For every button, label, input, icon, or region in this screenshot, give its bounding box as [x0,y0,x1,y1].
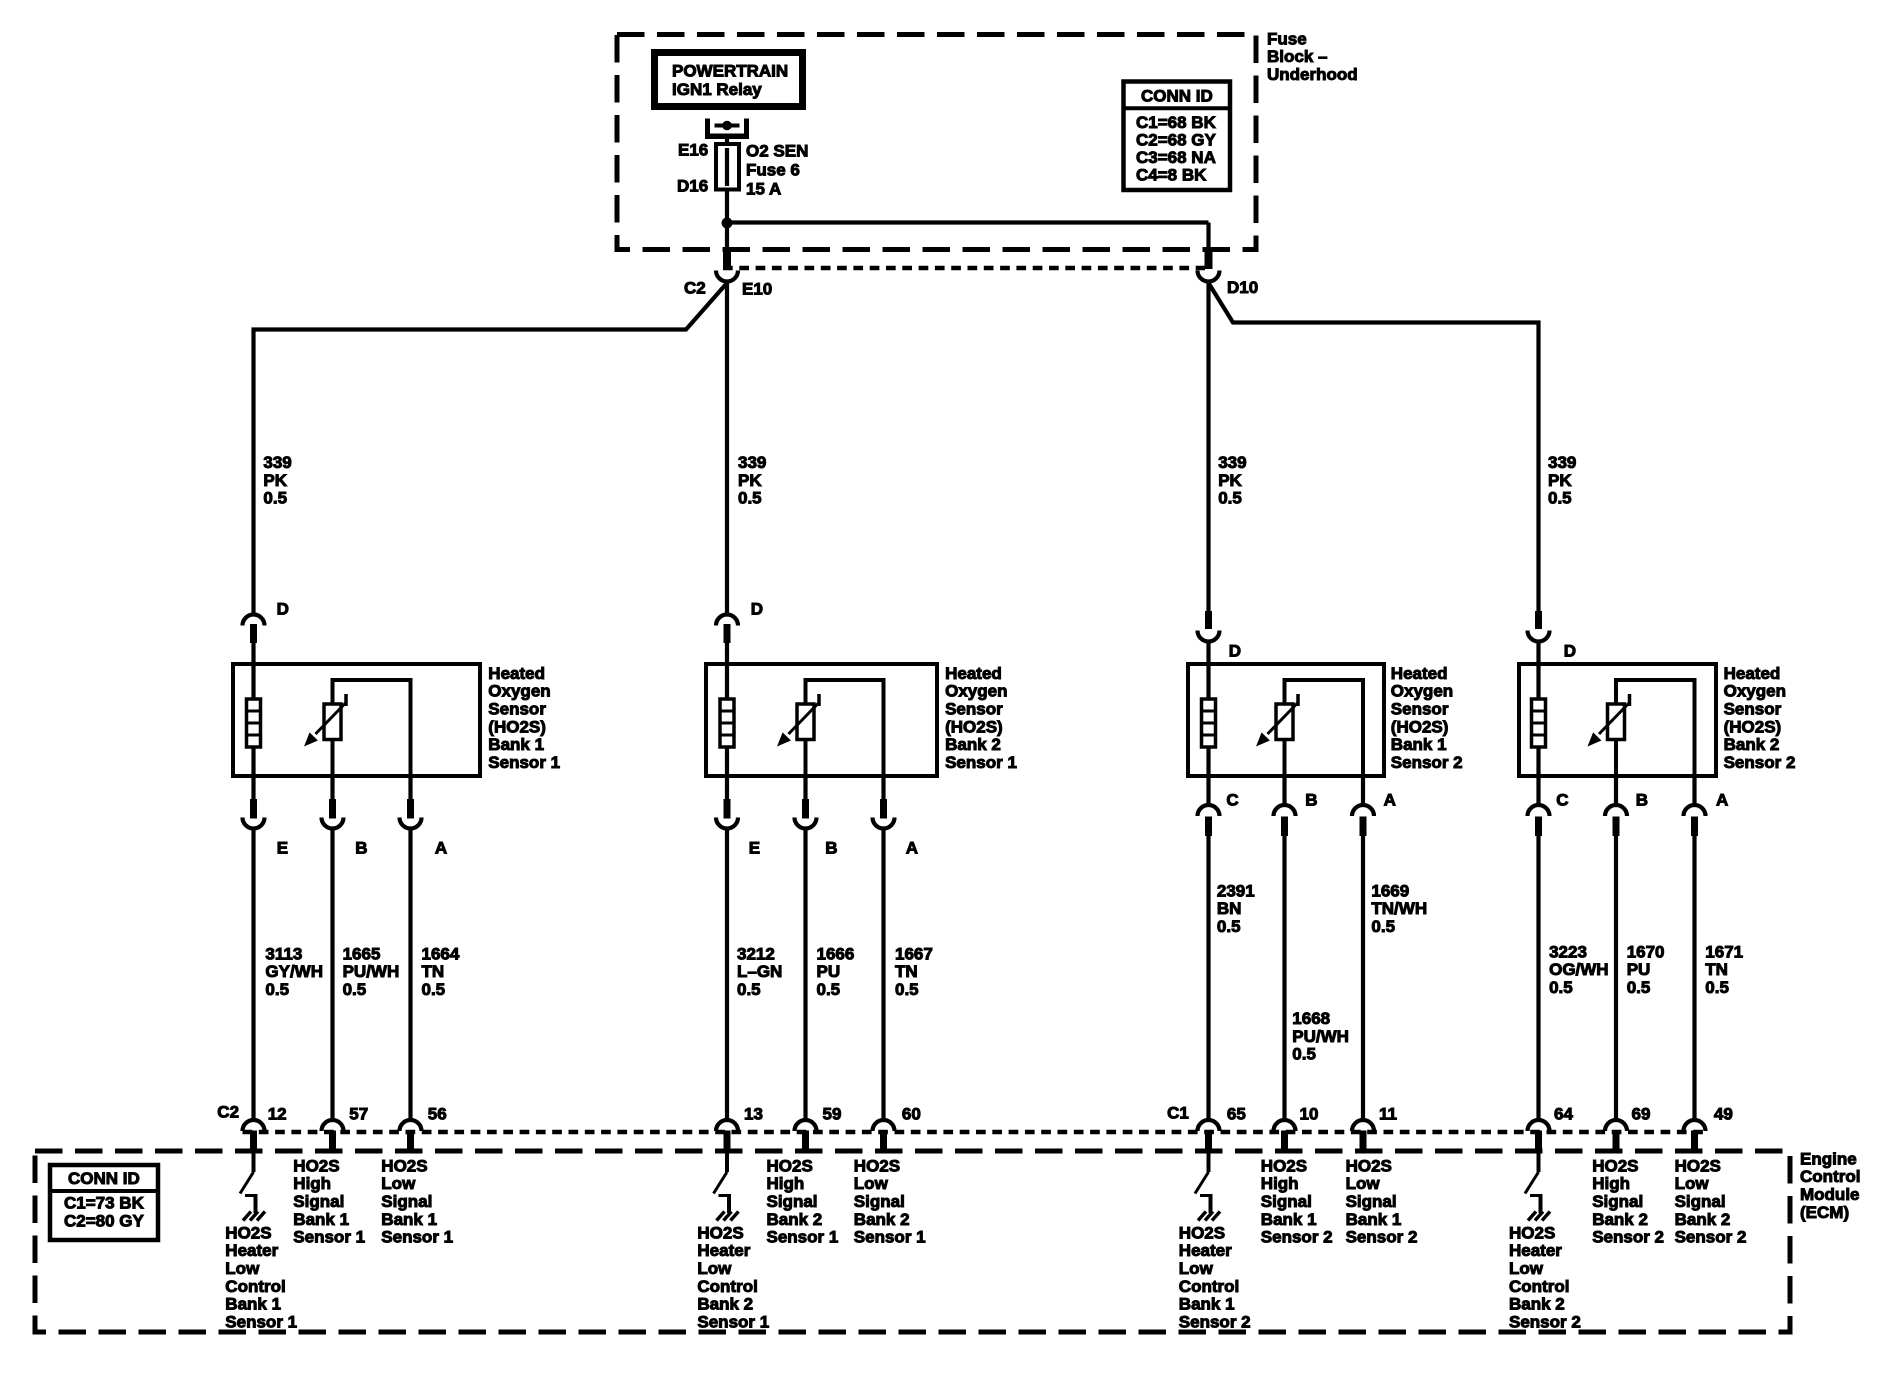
svg-text:Bank 1: Bank 1 [1261,1210,1317,1229]
svg-text:Bank 2: Bank 2 [767,1210,823,1229]
svg-text:Sensor 2: Sensor 2 [1391,753,1463,772]
svg-text:C1=68 BK: C1=68 BK [1136,113,1217,132]
svg-text:Sensor 1: Sensor 1 [488,753,560,772]
svg-text:C: C [1226,790,1238,809]
svg-text:Control: Control [1179,1277,1239,1296]
label C (sensor 4) [1556,790,1568,809]
svg-text:OG/WH: OG/WH [1549,960,1609,979]
ECM pin connector at x=727 [716,1120,738,1151]
svg-text:Sensor 2: Sensor 2 [1346,1228,1418,1247]
svg-text:HO2S: HO2S [767,1156,813,1175]
svg-text:1666: 1666 [817,944,855,963]
svg-text:Sensor: Sensor [1724,700,1782,719]
ECM signal label Heater Bank 2 [697,1223,769,1331]
svg-text:Sensor 1: Sensor 1 [945,753,1017,772]
pin number 56 [428,1104,447,1123]
svg-text:Bank 1: Bank 1 [1179,1295,1235,1314]
svg-text:HO2S: HO2S [381,1156,427,1175]
svg-text:65: 65 [1227,1104,1246,1123]
CONN ID title (fuse block) [1141,86,1213,105]
heater element (sensor 2) [720,664,734,776]
svg-text:1671: 1671 [1705,942,1743,961]
svg-text:Low: Low [1346,1174,1381,1193]
svg-text:B: B [825,838,837,857]
svg-text:B: B [1636,790,1648,809]
svg-text:Oxygen: Oxygen [945,682,1007,701]
label D10 [1227,278,1258,297]
svg-text:0.5: 0.5 [263,489,287,508]
CONN ID box (fuse block) [1124,82,1231,191]
sensing element (sensor 4) [1588,680,1695,776]
svg-text:L–GN: L–GN [737,962,782,981]
pin number 60 [902,1104,921,1123]
svg-text:59: 59 [823,1104,842,1123]
svg-text:339: 339 [738,453,766,472]
ECM pin connector at x=1284.5 [1274,1120,1296,1151]
connector D10 [1198,248,1220,282]
svg-text:Bank 1: Bank 1 [293,1210,349,1229]
ECM pin connector at x=1538.5 [1528,1120,1550,1151]
svg-text:1670: 1670 [1627,942,1665,961]
svg-text:1665: 1665 [343,944,381,963]
conn row C1=73 BK [64,1193,145,1212]
svg-text:HO2S: HO2S [1509,1223,1555,1242]
svg-text:D: D [751,599,763,618]
svg-text:339: 339 [263,453,291,472]
svg-text:Low: Low [697,1259,732,1278]
svg-text:0.5: 0.5 [1548,489,1572,508]
wire label 1671 [1705,942,1743,997]
relay K1 POWERTRAIN IGN1 box [655,53,803,107]
svg-text:Low: Low [1509,1259,1544,1278]
svg-text:Bank 2: Bank 2 [945,735,1001,754]
pin number 59 [823,1104,842,1123]
svg-text:IGN1 Relay: IGN1 Relay [672,80,762,99]
svg-text:C1=73 BK: C1=73 BK [64,1193,145,1212]
svg-text:Sensor 1: Sensor 1 [697,1312,769,1331]
ECM signal label Low Bank 1 [1346,1156,1418,1246]
wire label 1670 [1627,942,1665,997]
svg-text:Heater: Heater [1509,1241,1562,1260]
connector C (sensor 3) [1198,776,1220,1121]
svg-text:C2: C2 [684,278,706,297]
svg-text:HO2S: HO2S [1592,1156,1638,1175]
fuse block Underhood dashed border [617,35,1256,250]
wire label 1667 [895,944,933,999]
ECM dashed border [35,1151,1790,1332]
svg-text:High: High [293,1174,331,1193]
wire D10 down to sensor B1S2 (branch 3) [1206,282,1210,611]
svg-text:Sensor 2: Sensor 2 [1261,1228,1333,1247]
svg-text:HO2S: HO2S [697,1223,743,1242]
sensor box 4 label [1724,664,1796,772]
label E (sensor 2) [749,838,760,857]
svg-text:Signal: Signal [1675,1192,1726,1211]
ECM pin connector at x=1616 [1605,1120,1627,1151]
svg-text:0.5: 0.5 [737,980,761,999]
wire 339 PK 0.5 label (branch 2) [738,453,766,508]
ECM signal label Low Bank 1 [381,1156,453,1246]
svg-text:1669: 1669 [1371,881,1409,900]
wire label 1666 [817,944,855,999]
sensor box 3 label [1391,664,1463,772]
svg-text:Sensor: Sensor [945,700,1003,719]
label A (sensor 4) [1716,790,1728,809]
ground (group 2) [717,1212,739,1221]
label A (sensor 2) [906,838,918,857]
conn row C2=80 GY [64,1211,145,1230]
label C2 [684,278,706,297]
fuse block label [1267,29,1358,84]
label E10 [742,279,772,298]
svg-text:CONN ID: CONN ID [1141,86,1213,105]
svg-text:(HO2S): (HO2S) [945,717,1003,736]
svg-text:Module: Module [1800,1185,1860,1204]
connector E (sensor 1) [243,776,265,1121]
svg-text:11: 11 [1379,1104,1397,1123]
ECM signal label High Bank 2 [767,1156,839,1246]
heater element (sensor 1) [247,664,261,776]
relay label line1 [672,61,788,80]
svg-text:Heater: Heater [1179,1241,1232,1260]
svg-text:E: E [277,838,288,857]
svg-text:Signal: Signal [854,1192,905,1211]
ECM pin connector at x=253.5 [243,1120,265,1151]
ECM pin connector at x=1363 [1352,1120,1374,1151]
ECM heater driver switch (group 2) [714,1151,732,1213]
HO2S sensor box 2 (Bank 2 Sensor 1) [706,664,937,776]
ECM pin connector at x=332.5 [322,1120,344,1151]
pin number 65 [1227,1104,1246,1123]
svg-text:Bank 2: Bank 2 [1675,1210,1731,1229]
svg-text:C: C [1556,790,1568,809]
svg-text:Oxygen: Oxygen [1391,682,1453,701]
svg-text:64: 64 [1554,1104,1573,1123]
fuse F6 O2 SEN 15 A [716,144,739,190]
svg-text:60: 60 [902,1104,921,1123]
svg-text:Bank 1: Bank 1 [381,1210,437,1229]
connector B (sensor 4) [1605,776,1627,1121]
svg-text:Bank 1: Bank 1 [1391,735,1447,754]
svg-text:D: D [1229,641,1241,660]
svg-text:339: 339 [1548,453,1576,472]
svg-text:Engine: Engine [1800,1149,1857,1168]
svg-text:HO2S: HO2S [1179,1223,1225,1242]
ECM signal label High Bank 1 [293,1156,365,1246]
pin number 64 [1554,1104,1573,1123]
connector B (sensor 3) [1274,776,1296,1121]
svg-text:Block –: Block – [1267,47,1327,66]
svg-text:Low: Low [381,1174,416,1193]
svg-text:15 A: 15 A [746,179,781,198]
svg-text:0.5: 0.5 [817,980,841,999]
svg-text:B: B [355,838,367,857]
svg-text:D10: D10 [1227,278,1258,297]
svg-text:0.5: 0.5 [265,980,289,999]
svg-text:Heated: Heated [1724,664,1781,683]
connector D (sensor 2) [716,615,738,666]
ground (group 4) [1528,1212,1550,1221]
sensor box 2 label [945,664,1017,772]
ECM signal label Low Bank 2 [1675,1156,1747,1246]
ECM pin connector at x=1208.5 [1198,1120,1220,1151]
connector E (sensor 2) [716,776,738,1121]
wire junction to D10 drop [727,223,1209,251]
heater element (sensor 4) [1532,664,1546,776]
svg-text:TN: TN [895,962,918,981]
svg-text:C2=68 GY: C2=68 GY [1136,130,1217,149]
wire label 3212 [737,944,782,999]
svg-text:10: 10 [1300,1104,1319,1123]
wire label 1664 [422,944,460,999]
svg-text:Oxygen: Oxygen [488,682,550,701]
label C (sensor 3) [1226,790,1238,809]
svg-text:56: 56 [428,1104,447,1123]
svg-text:E: E [749,838,760,857]
conn row C4=8 BK [1136,165,1207,184]
svg-text:Fuse 6: Fuse 6 [746,160,800,179]
wire label 3113 [265,944,323,999]
svg-text:Sensor 1: Sensor 1 [767,1228,839,1247]
svg-text:(ECM): (ECM) [1800,1203,1849,1222]
relay contact symbol [705,119,749,147]
CONN ID title (ECM) [68,1169,140,1188]
svg-text:Bank 2: Bank 2 [1724,735,1780,754]
svg-text:PU: PU [1627,960,1651,979]
svg-text:Bank 2: Bank 2 [697,1295,753,1314]
svg-text:0.5: 0.5 [343,980,367,999]
svg-text:Low: Low [1179,1259,1214,1278]
svg-text:Signal: Signal [1261,1192,1312,1211]
heater element (sensor 3) [1202,664,1216,776]
svg-text:PK: PK [1548,471,1572,490]
svg-text:Signal: Signal [381,1192,432,1211]
wire E10 to branch 1 (left) [254,283,728,614]
svg-text:Signal: Signal [293,1192,344,1211]
fuse label [746,141,808,198]
ECM signal label Heater Bank 1 [1179,1223,1251,1331]
svg-text:Control: Control [1509,1277,1569,1296]
svg-text:Sensor 2: Sensor 2 [1675,1228,1747,1247]
svg-text:A: A [1716,790,1728,809]
ground (group 3) [1198,1212,1220,1221]
svg-text:Bank 2: Bank 2 [854,1210,910,1229]
svg-text:Low: Low [1675,1174,1710,1193]
svg-text:C2=80 GY: C2=80 GY [64,1211,145,1230]
wire label 1668 [1292,1009,1349,1064]
svg-text:High: High [1261,1174,1299,1193]
sensor box 1 label [488,664,560,772]
svg-text:Signal: Signal [1592,1192,1643,1211]
ECM pin connector at x=883.5 [873,1120,895,1151]
label D (sensor 2) [751,599,763,618]
connector D (sensor 1) [243,615,265,666]
label E (sensor 1) [277,838,288,857]
svg-text:0.5: 0.5 [422,980,446,999]
svg-text:0.5: 0.5 [1217,917,1241,936]
ECM signal label High Bank 1 [1261,1156,1333,1246]
svg-text:Sensor 1: Sensor 1 [381,1228,453,1247]
connector B (sensor 1) [322,776,344,1121]
label B (sensor 1) [355,838,367,857]
ECM pin connector at x=1694.5 [1684,1120,1706,1151]
label D (sensor 4) [1564,641,1576,660]
svg-text:13: 13 [744,1104,763,1123]
svg-text:3223: 3223 [1549,942,1587,961]
svg-text:Heater: Heater [225,1241,278,1260]
svg-text:Heater: Heater [697,1241,750,1260]
svg-text:Heated: Heated [945,664,1002,683]
svg-text:C1: C1 [1167,1103,1189,1122]
svg-text:57: 57 [349,1104,368,1123]
svg-text:High: High [1592,1174,1630,1193]
svg-text:0.5: 0.5 [738,489,762,508]
label A (sensor 3) [1384,790,1396,809]
svg-text:TN: TN [422,962,445,981]
conn row C2=68 GY [1136,130,1217,149]
CONN ID box (ECM) [50,1165,158,1240]
ECM heater driver switch (group 1) [240,1151,258,1213]
dotted connector line (underhood) [723,266,1205,271]
svg-text:E16: E16 [678,140,708,159]
svg-text:Sensor 2: Sensor 2 [1509,1312,1581,1331]
svg-text:A: A [435,838,447,857]
sensing element (sensor 3) [1256,680,1363,776]
pin number 12 [268,1104,287,1123]
wire 339 PK 0.5 label (branch 1) [263,453,291,508]
svg-text:C4=8 BK: C4=8 BK [1136,165,1207,184]
pin number 57 [349,1104,368,1123]
svg-text:69: 69 [1632,1104,1651,1123]
connector D (sensor 4) [1528,611,1550,666]
svg-text:Heated: Heated [1391,664,1448,683]
connector A (sensor 2) [873,776,895,1121]
connector C (sensor 4) [1528,776,1550,1121]
svg-text:TN: TN [1705,960,1728,979]
svg-text:0.5: 0.5 [1627,978,1651,997]
svg-text:HO2S: HO2S [293,1156,339,1175]
HO2S sensor box 4 (Bank 2 Sensor 2) [1519,664,1716,776]
svg-text:3212: 3212 [737,944,775,963]
ECM heater driver switch (group 3) [1195,1151,1213,1213]
pin number 11 [1379,1104,1397,1123]
ECM heater driver switch (group 4) [1525,1151,1543,1213]
svg-text:CONN ID: CONN ID [68,1169,140,1188]
svg-text:PU/WH: PU/WH [1292,1027,1349,1046]
svg-text:Underhood: Underhood [1267,65,1358,84]
ECM signal label High Bank 2 [1592,1156,1664,1246]
dotted connector line (ECM) [243,1130,1706,1135]
svg-text:0.5: 0.5 [1705,978,1729,997]
svg-text:Low: Low [854,1174,889,1193]
junction node [722,218,733,229]
svg-text:A: A [906,838,918,857]
pin label E16 [678,140,708,159]
svg-text:Fuse: Fuse [1267,29,1307,48]
pin number 69 [1632,1104,1651,1123]
svg-text:TN/WH: TN/WH [1371,899,1427,918]
connector D (sensor 3) [1198,611,1220,666]
ECM signal label Heater Bank 1 [225,1223,297,1331]
pin number 10 [1300,1104,1319,1123]
svg-text:Bank 2: Bank 2 [1509,1295,1565,1314]
svg-text:1668: 1668 [1292,1009,1330,1028]
wire 339 PK 0.5 label (branch 4) [1548,453,1576,508]
svg-text:PK: PK [1218,471,1242,490]
connector A (sensor 4) [1684,776,1706,1121]
svg-text:HO2S: HO2S [1675,1156,1721,1175]
label D (sensor 3) [1229,641,1241,660]
svg-text:Sensor 1: Sensor 1 [225,1312,297,1331]
wire label 3223 [1549,942,1609,997]
svg-text:Control: Control [697,1277,757,1296]
pin label D16 [677,176,708,195]
wire fuse to junction [725,190,729,223]
svg-text:Sensor 1: Sensor 1 [293,1228,365,1247]
svg-text:Signal: Signal [1346,1192,1397,1211]
svg-text:Control: Control [1800,1167,1860,1186]
svg-text:0.5: 0.5 [1549,978,1573,997]
svg-text:B: B [1305,790,1317,809]
ground (group 1) [243,1212,265,1221]
pin number 13 [744,1104,763,1123]
wire label 2391 [1217,881,1255,936]
HO2S sensor box 1 (Bank 1 Sensor 1) [233,664,480,776]
sensing element (sensor 1) [304,680,411,776]
conn row C1=68 BK [1136,113,1217,132]
label B (sensor 4) [1636,790,1648,809]
ECM pin connector at x=805.5 [795,1120,817,1151]
label B (sensor 3) [1305,790,1317,809]
svg-text:A: A [1384,790,1396,809]
ECM signal label Low Bank 2 [854,1156,926,1246]
svg-text:(HO2S): (HO2S) [1724,717,1782,736]
svg-text:Heated: Heated [488,664,545,683]
svg-text:POWERTRAIN: POWERTRAIN [672,61,788,80]
svg-text:C2: C2 [217,1102,239,1121]
svg-text:(HO2S): (HO2S) [488,717,546,736]
label A (sensor 1) [435,838,447,857]
svg-text:GY/WH: GY/WH [265,962,323,981]
HO2S sensor box 3 (Bank 1 Sensor 2) [1188,664,1384,776]
svg-text:Oxygen: Oxygen [1724,682,1786,701]
wire label 1669 [1371,881,1427,936]
svg-text:BN: BN [1217,899,1242,918]
ECM pin connector at x=410.5 [400,1120,422,1151]
wire label 1665 [343,944,400,999]
svg-text:PU: PU [817,962,841,981]
svg-text:Sensor 2: Sensor 2 [1592,1228,1664,1247]
svg-text:O2 SEN: O2 SEN [746,141,808,160]
svg-text:C3=68 NA: C3=68 NA [1136,148,1216,167]
svg-text:49: 49 [1714,1104,1733,1123]
svg-text:Bank 2: Bank 2 [1592,1210,1648,1229]
wire junction to E10 pin [725,223,729,250]
svg-text:PK: PK [738,471,762,490]
svg-text:HO2S: HO2S [854,1156,900,1175]
svg-text:D: D [277,599,289,618]
svg-text:Signal: Signal [767,1192,818,1211]
pin number 49 [1714,1104,1733,1123]
conn row C3=68 NA [1136,148,1216,167]
svg-text:Sensor 2: Sensor 2 [1724,753,1796,772]
connector A (sensor 3) [1352,776,1374,1121]
svg-text:2391: 2391 [1217,881,1255,900]
svg-text:1667: 1667 [895,944,933,963]
wire D10 to branch 4 (right) [1209,283,1539,611]
svg-text:0.5: 0.5 [895,980,919,999]
svg-text:Bank 1: Bank 1 [488,735,544,754]
